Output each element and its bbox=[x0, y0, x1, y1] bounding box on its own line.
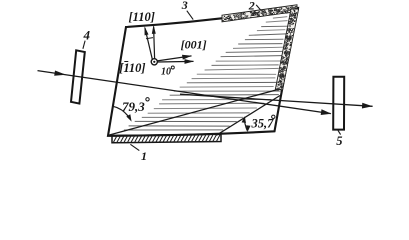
leader line for label 3 bbox=[187, 11, 193, 20]
axis arrow [110] (near vertical pair, left one) bbox=[145, 28, 152, 59]
incident light beam (straight line through polarizer and crystal to plate 5) bbox=[38, 71, 331, 114]
svg-text:5: 5 bbox=[336, 134, 342, 148]
svg-text:[001]: [001] bbox=[181, 37, 207, 51]
transducer strip 1 (diagonally hatched strip below bottom edge) bbox=[112, 134, 221, 143]
arrowhead on incident beam bbox=[54, 71, 66, 76]
polarizer plate 4 (tilted thin rectangle) bbox=[71, 50, 85, 103]
svg-text:10: 10 bbox=[161, 66, 171, 77]
leader line for label 2 bbox=[256, 5, 262, 11]
stippled band along upper right edge of crystal bbox=[275, 9, 298, 90]
svg-text:1: 1 bbox=[141, 149, 147, 160]
arrowhead of beam at analyzer plate 5 bbox=[321, 109, 332, 115]
acoustic beam hatching (horizontal hatch lines inside crystal) bbox=[124, 13, 290, 130]
leader line for label 1 bbox=[130, 144, 139, 150]
reflected acoustic beam boundary D2 (from transducer right end up to right edge) bbox=[217, 96, 281, 136]
angle arrow 35.7 deg near bottom-right (between bottom edge and D2) bbox=[245, 118, 248, 131]
crystal sample outline (element 3) bbox=[108, 8, 298, 136]
absorber strip 2 (stippled band along top edge) bbox=[222, 5, 297, 22]
leader line for label 5 bbox=[338, 130, 341, 134]
leader line for label 4 bbox=[83, 41, 85, 49]
overbar of [1-10] label bbox=[124, 61, 128, 63]
diffracted light beam (from inside crystal through plate 5, exits right) bbox=[180, 94, 373, 106]
svg-text:[110]: [110] bbox=[119, 61, 145, 75]
small tick between vertical arrow pair bbox=[146, 38, 153, 39]
reflected acoustic beam boundary D1 (from bottom-left corner to right edge) bbox=[109, 89, 282, 136]
axis arrow [001] (upper right arrow) bbox=[157, 56, 191, 61]
analyzer plate 5 (vertical thin rectangle) bbox=[333, 77, 344, 130]
axis origin symbol (circle with dot, [1-10] out of page) bbox=[151, 59, 157, 65]
figure: acousto-optic crystal experiment diagram bbox=[0, 0, 409, 160]
axis arrow sample normal (near vertical pair, right one) bbox=[154, 27, 155, 59]
angle arc 79.3 deg at bottom-left corner (between left edge and D1) bbox=[113, 106, 131, 119]
svg-text:79,3: 79,3 bbox=[122, 99, 145, 114]
svg-text:35,7: 35,7 bbox=[251, 117, 275, 131]
arrowhead of diffracted beam at far right bbox=[362, 103, 373, 109]
svg-text:2: 2 bbox=[248, 0, 255, 12]
svg-text:4: 4 bbox=[83, 27, 91, 42]
svg-text:[110]: [110] bbox=[129, 10, 155, 24]
svg-text:3: 3 bbox=[181, 0, 188, 12]
axis arrow sample edge direction (lower right arrow) bbox=[157, 60, 193, 63]
